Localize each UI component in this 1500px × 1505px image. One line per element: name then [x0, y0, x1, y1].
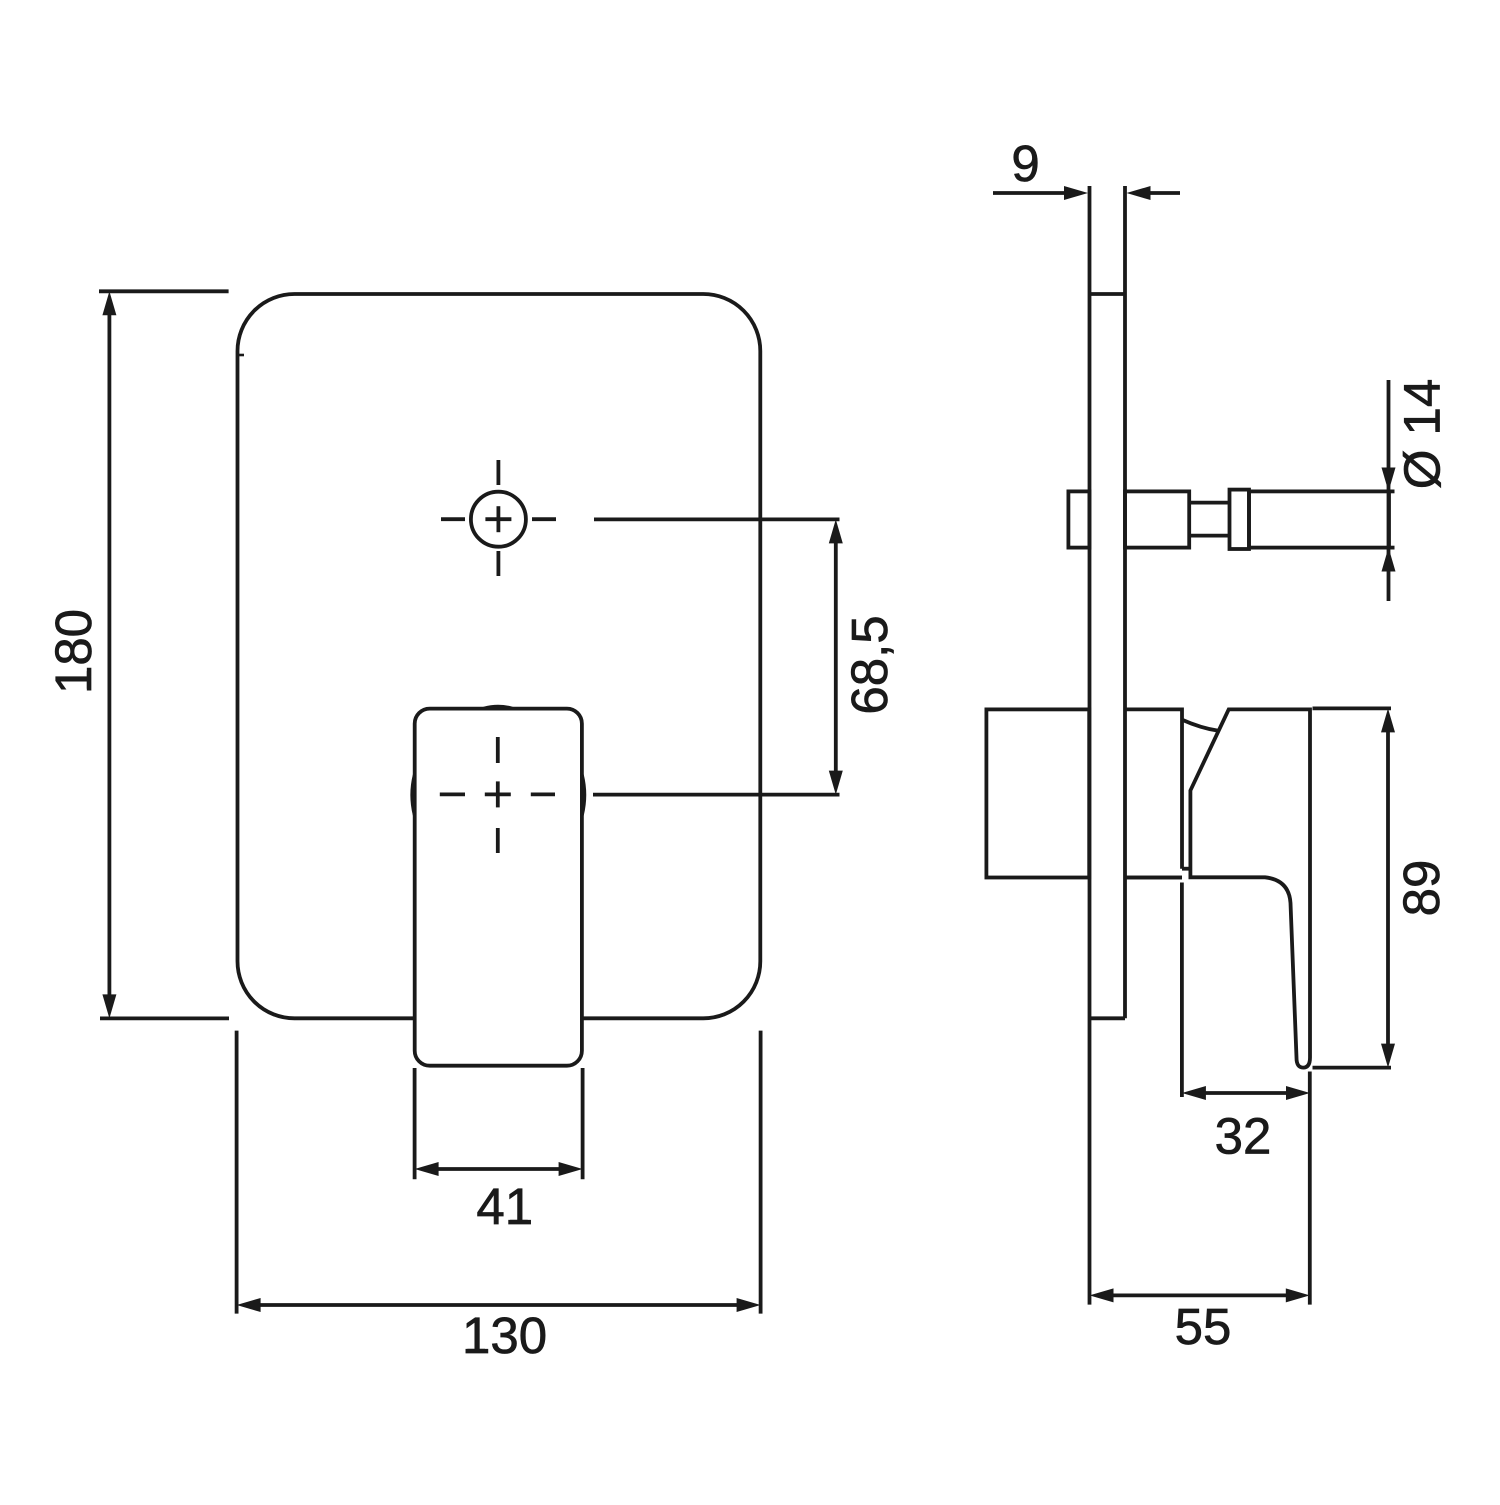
dim 180 extension top: [99, 289, 229, 293]
svg-text:32: 32: [1215, 1108, 1272, 1165]
dim 9 arrow left-pointing: [1127, 186, 1151, 200]
dim 180 text: [45, 609, 102, 694]
dim 130 line: [258, 1303, 739, 1307]
dim 55 arrow right: [1286, 1288, 1310, 1302]
side view wall plate top edge: [1090, 292, 1126, 296]
dim 41 text: [476, 1178, 533, 1235]
dim 32 arrow right: [1286, 1086, 1310, 1100]
dim 89 extension bottom: [1313, 1066, 1392, 1070]
handle left bulge: [412, 775, 414, 815]
dim 41 line: [436, 1167, 561, 1171]
dim 130 extension left: [235, 1031, 239, 1314]
dim 41 extension right: [581, 1068, 585, 1179]
dim Ø14 text: [1394, 379, 1451, 490]
side view wall plate right line (extends up for dim 9): [1123, 186, 1127, 1018]
dim 32 line: [1203, 1091, 1291, 1095]
handle centerline left dash: [440, 793, 465, 797]
side view wall plate bottom edge: [1090, 1016, 1126, 1020]
dim 32 arrow left: [1182, 1086, 1206, 1100]
svg-text:68,5: 68,5: [841, 615, 898, 714]
dim 9 arrow right-pointing: [1064, 186, 1088, 200]
diverter knob neck: [1189, 501, 1229, 505]
side handle outline: [1190, 709, 1310, 1067]
stem-handle notch tick: [1182, 867, 1190, 871]
side view rear small rect: [1068, 491, 1089, 547]
handle top bump: [484, 707, 512, 709]
front view plate: [238, 294, 761, 1018]
dim 55 extension right: [1308, 1072, 1312, 1305]
dim Ø14 arrow up-pointing: [1382, 548, 1396, 572]
dim Ø14 line: [1387, 380, 1391, 601]
dim 130 extension right: [759, 1031, 763, 1314]
handle centerline top dash: [496, 737, 500, 763]
diverter knob rect A: [1125, 491, 1189, 547]
dim Ø14 bottom overshoot: [1389, 546, 1395, 550]
dim 180 extension bottom: [100, 1017, 229, 1021]
svg-text:130: 130: [462, 1307, 547, 1364]
dim 9 line right segment: [1148, 191, 1180, 195]
dim 180 line: [108, 313, 112, 997]
dim Ø14 arrow down-pointing: [1382, 468, 1396, 492]
dim Ø14 top overshoot: [1389, 489, 1395, 493]
svg-text:9: 9: [1011, 135, 1039, 192]
svg-text:180: 180: [45, 609, 102, 694]
diverter knob flange: [1230, 490, 1250, 549]
dim 41 arrow left: [415, 1162, 439, 1176]
dim 68,5 arrow down: [829, 771, 843, 795]
dim 55 arrow left: [1090, 1288, 1114, 1302]
svg-text:Ø 14: Ø 14: [1394, 379, 1451, 490]
svg-text:55: 55: [1175, 1298, 1232, 1355]
hole centerline right dash: [532, 517, 556, 521]
svg-text:89: 89: [1393, 860, 1450, 917]
side view stem rect right of plate: [1125, 709, 1182, 877]
dim 41 extension left: [413, 1068, 417, 1179]
handle center cross: [485, 793, 511, 797]
dim 68,5 line: [834, 540, 838, 773]
dim 130 arrow right: [737, 1298, 761, 1312]
dim 68,5 extension top: [594, 518, 840, 522]
diverter knob cylinder: [1249, 491, 1389, 547]
dim 41 arrow right: [559, 1162, 583, 1176]
hole center cross: [485, 517, 511, 521]
dim 68,5 arrow up: [829, 519, 843, 543]
handle right bulge: [582, 775, 584, 815]
handle centerline right dash: [531, 793, 555, 797]
dim 55 line: [1111, 1294, 1289, 1298]
plate corner arc tick: [238, 354, 245, 357]
side view wall plate left line (extends up for dim 9 and down for dim 55): [1088, 186, 1092, 1305]
hole circle: [471, 492, 526, 547]
dim 130 arrow left: [237, 1298, 261, 1312]
dim 180 arrow down: [102, 994, 116, 1018]
dim 89 extension top: [1313, 707, 1392, 711]
dim 68,5 extension bottom: [593, 793, 840, 797]
side handle collar arc: [1182, 720, 1219, 731]
dim 89 arrow down: [1381, 1044, 1395, 1068]
dim 89 arrow up: [1381, 708, 1395, 732]
svg-text:41: 41: [476, 1178, 533, 1235]
handle front: [415, 709, 582, 1066]
dim 32 extension left: [1180, 883, 1184, 1098]
stem bottom edge: [1125, 876, 1182, 880]
side view body rectangle: [986, 709, 1089, 877]
hole centerline top dash: [496, 460, 500, 485]
dim 9 line left segment: [993, 191, 1067, 195]
dim 180 arrow up: [102, 291, 116, 315]
dim 130 text: [462, 1307, 547, 1364]
dim 89 line: [1386, 730, 1390, 1046]
hole centerline bottom dash: [496, 551, 500, 576]
handle centerline bottom dash: [496, 828, 500, 853]
hole centerline left dash: [441, 517, 465, 521]
